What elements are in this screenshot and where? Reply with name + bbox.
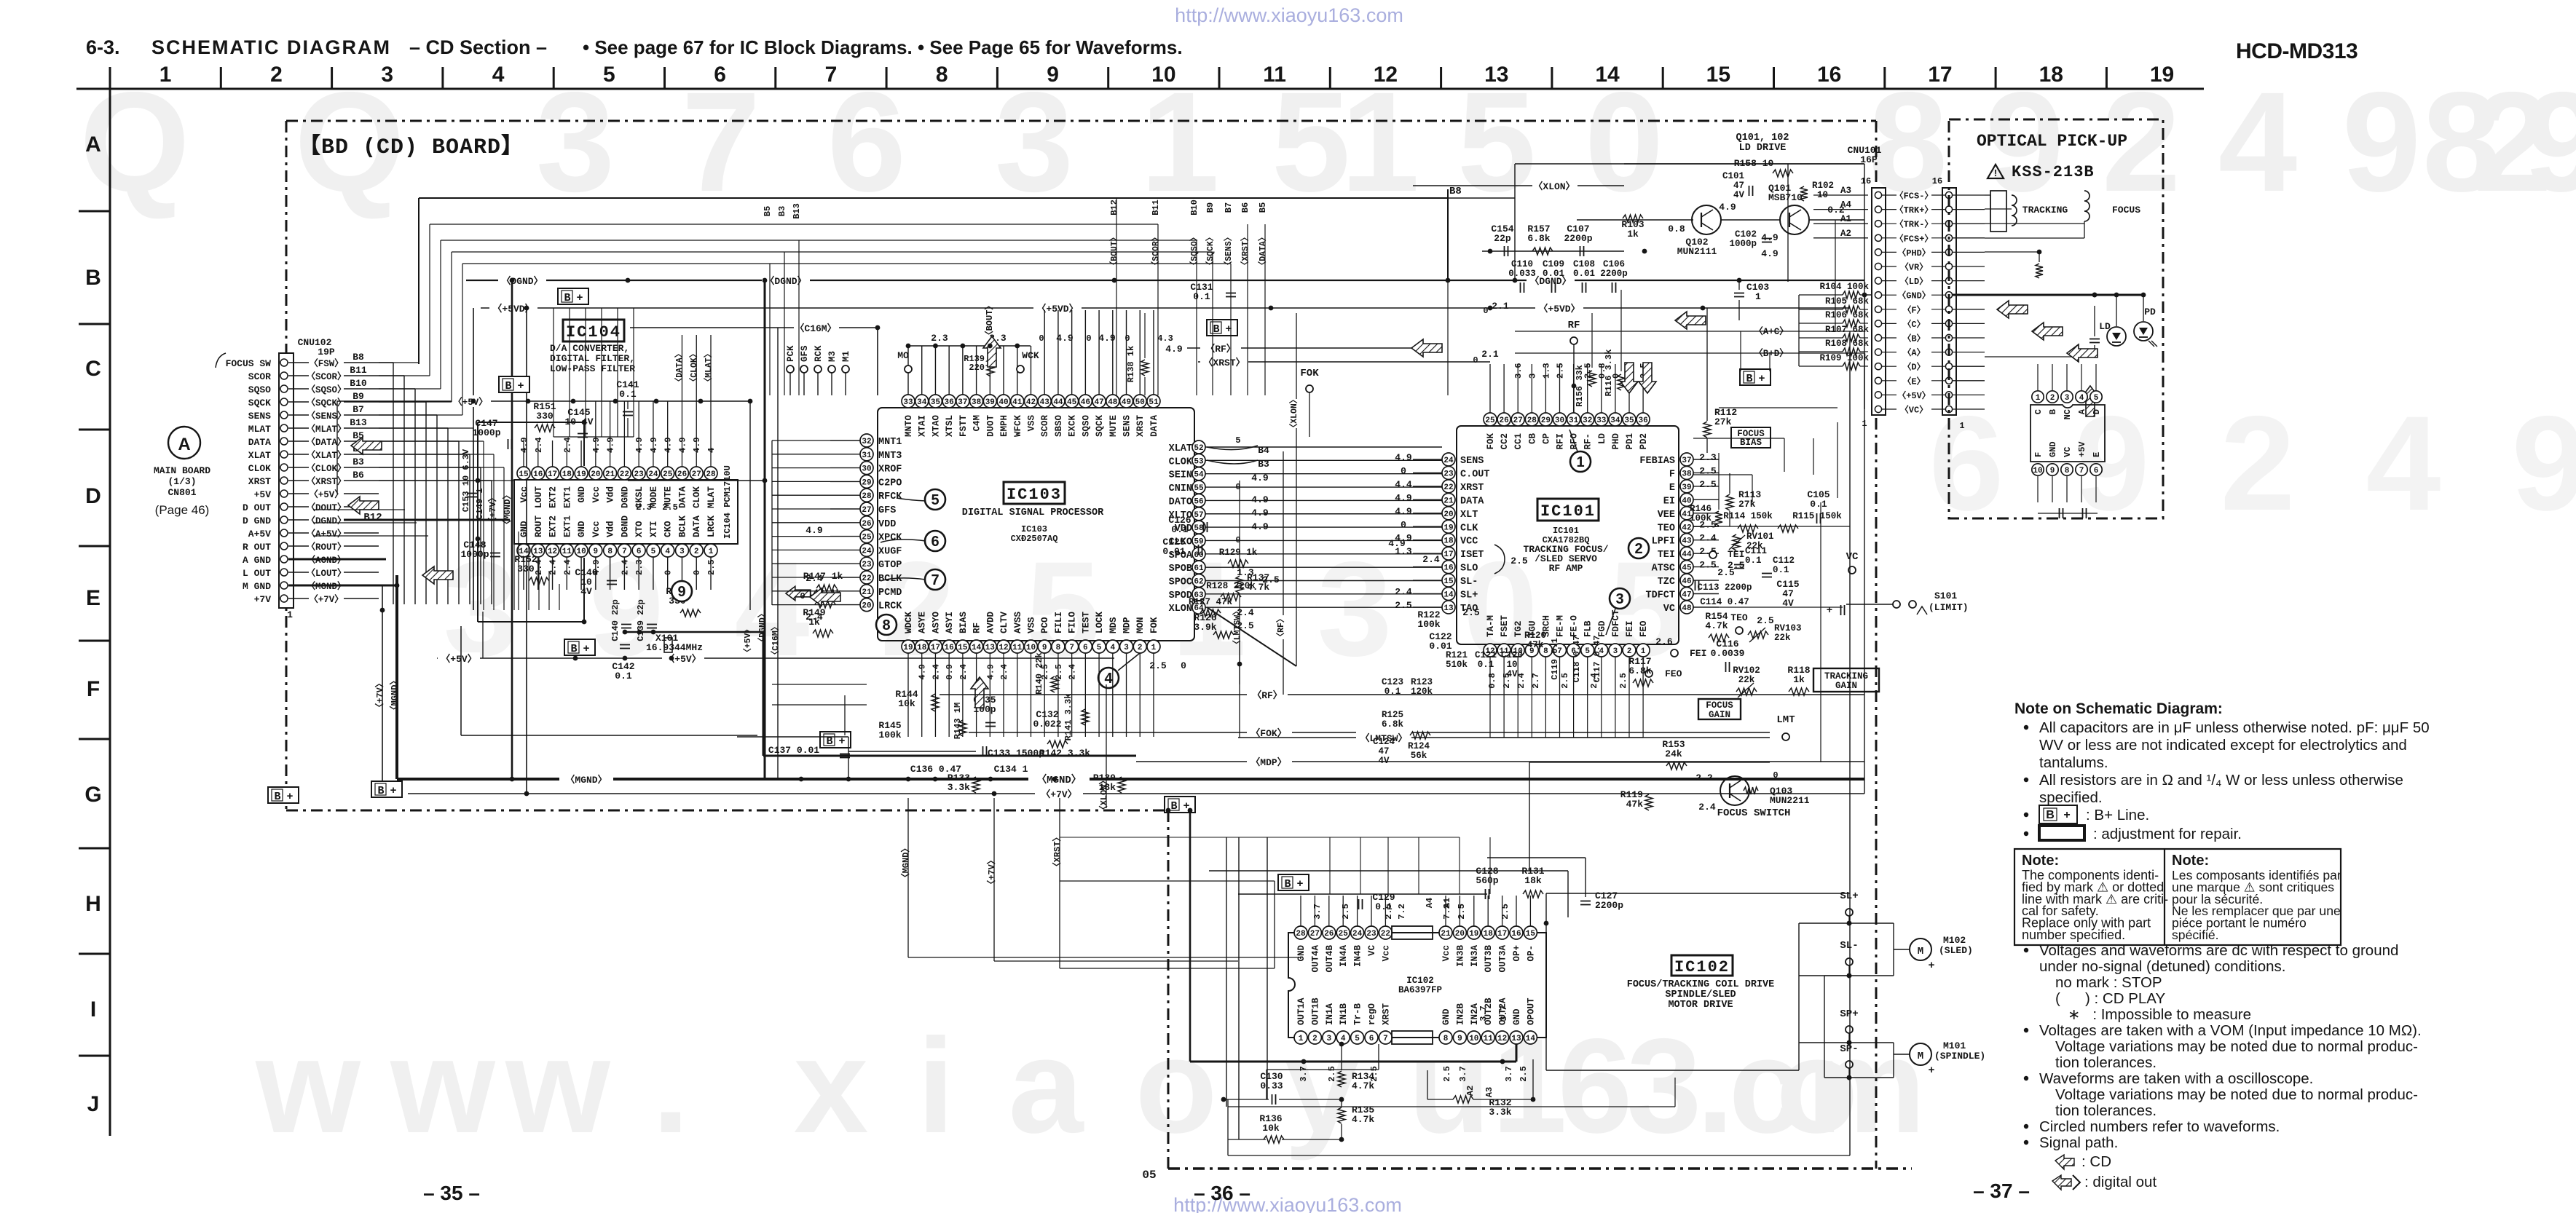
svg-text:Voltage variations may be note: Voltage variations may be noted due to n…	[2055, 1038, 2418, 1055]
signal tag LMTSW	[1238, 737, 1770, 738]
svg-text:XROF: XROF	[878, 465, 902, 475]
svg-text:7: 7	[825, 63, 838, 87]
grid column ticks and numbers	[109, 67, 111, 89]
svg-text:CLTV: CLTV	[999, 611, 1009, 633]
waveform circle 4	[1098, 668, 1119, 688]
svg-text:Vdd: Vdd	[606, 486, 616, 503]
hatched arrows down LD PHD	[1620, 363, 1638, 393]
svg-text:VEE: VEE	[1658, 510, 1675, 521]
svg-text:6.8k: 6.8k	[1628, 665, 1651, 676]
svg-text:1k: 1k	[1793, 674, 1805, 685]
svg-text:C102: C102	[1735, 229, 1757, 240]
svg-text:tion tolerances.: tion tolerances.	[2055, 1102, 2156, 1119]
svg-text:4: 4	[706, 448, 717, 453]
svg-text:29: 29	[1541, 416, 1551, 425]
svg-text:CC1: CC1	[1513, 433, 1524, 450]
svg-text:5: 5	[1097, 644, 1102, 652]
svg-text:3.9k: 3.9k	[1194, 622, 1216, 633]
svg-text:2200p: 2200p	[1600, 269, 1628, 279]
svg-text:4V: 4V	[580, 586, 592, 597]
svg-text:PD1: PD1	[1625, 433, 1635, 450]
svg-text:Q101, 102: Q101, 102	[1736, 133, 1789, 143]
note bullet list capacitors resistors	[2024, 725, 2028, 730]
svg-text:PD2: PD2	[1639, 433, 1649, 450]
svg-text:〈BOUT〉: 〈BOUT〉	[1108, 233, 1119, 270]
svg-text:2.5: 2.5	[1728, 560, 1745, 571]
svg-text:20: 20	[591, 470, 600, 479]
wire bus +5VD top	[481, 307, 1850, 309]
svg-text:2: 2	[1138, 644, 1143, 652]
svg-text:2.5: 2.5	[1502, 673, 1512, 689]
svg-text:1: 1	[2036, 394, 2041, 403]
svg-text:B3: B3	[1258, 459, 1269, 470]
wire +7V riser from connector	[382, 586, 383, 794]
svg-text:6: 6	[2094, 467, 2099, 475]
IC103 chip body	[878, 408, 1194, 641]
svg-text:27k: 27k	[1714, 416, 1732, 427]
svg-text:3: 3	[2065, 394, 2070, 403]
svg-text:1.3: 1.3	[1541, 363, 1551, 379]
svg-text:IC103: IC103	[1007, 486, 1062, 504]
svg-text:B7: B7	[1224, 202, 1234, 213]
svg-text:spécifié.: spécifié.	[2172, 928, 2219, 942]
note B+ line symbol	[2024, 813, 2028, 817]
waveform circle 5	[925, 489, 945, 510]
svg-text:11: 11	[1263, 63, 1286, 87]
svg-text:FEI: FEI	[1690, 648, 1706, 659]
svg-text:〈MLAT〉: 〈MLAT〉	[703, 349, 714, 387]
svg-text:WDCK: WDCK	[904, 611, 914, 633]
svg-text:VC: VC	[1367, 945, 1377, 957]
svg-text:7.2: 7.2	[1397, 904, 1407, 920]
svg-text:2.5: 2.5	[1519, 1066, 1529, 1082]
wires transistor cluster	[1624, 163, 1864, 165]
svg-text:FE-O: FE-O	[1569, 615, 1580, 637]
IC101 SLO brace 2.5	[1494, 545, 1505, 574]
svg-text:2.5: 2.5	[706, 559, 717, 575]
svg-text:+: +	[390, 785, 396, 797]
svg-text:2: 2	[270, 63, 283, 87]
svg-text:2200p: 2200p	[1564, 233, 1592, 244]
svg-text:M101: M101	[1943, 1040, 1966, 1051]
warning triangle	[1988, 165, 2004, 178]
svg-text:16: 16	[945, 644, 954, 652]
svg-text:2: 2	[2050, 394, 2055, 403]
svg-text:VC: VC	[1663, 604, 1675, 615]
svg-text:TEST: TEST	[1081, 611, 1091, 633]
svg-text:C134 1: C134 1	[994, 764, 1028, 775]
svg-text:OUT4A: OUT4A	[1310, 945, 1320, 973]
svg-text:〈DOUT〉: 〈DOUT〉	[306, 502, 346, 513]
svg-text:!: !	[1994, 167, 1997, 178]
svg-text:MNT1: MNT1	[878, 437, 902, 448]
svg-text:C137 0.01: C137 0.01	[768, 745, 819, 756]
svg-text:GND: GND	[1441, 1008, 1452, 1025]
svg-text:DGND: DGND	[620, 515, 630, 537]
svg-text:2.1: 2.1	[1492, 301, 1509, 312]
svg-text:56: 56	[1194, 497, 1203, 506]
wire MGND riser from connector	[395, 575, 398, 779]
svg-text:• See page 67 for IC Block Dia: • See page 67 for IC Block Diagrams. • S…	[583, 36, 1183, 58]
wire horizontal collector below IC101	[1490, 737, 1643, 738]
svg-text:R102: R102	[1812, 181, 1834, 191]
svg-text:Note:: Note:	[2172, 853, 2209, 869]
svg-text:D: D	[85, 484, 101, 508]
svg-text:38: 38	[972, 398, 982, 407]
svg-text:w: w	[390, 1011, 496, 1161]
svg-text:〈+7V〉: 〈+7V〉	[487, 493, 498, 526]
svg-text:G: G	[84, 783, 101, 807]
svg-text:〈XLAT〉: 〈XLAT〉	[306, 449, 346, 461]
hatched arrow left near CNJ101	[1675, 312, 1706, 329]
svg-text:+: +	[2063, 809, 2070, 821]
svg-text:XTI: XTI	[649, 521, 659, 537]
svg-text:PD: PD	[2144, 307, 2156, 317]
svg-text:0.1: 0.1	[1773, 565, 1789, 575]
svg-text:+: +	[1827, 605, 1832, 617]
svg-text:D OUT: D OUT	[243, 502, 271, 513]
svg-text:OUT3A: OUT3A	[1498, 945, 1508, 973]
svg-text:〈D〉: 〈D〉	[1902, 361, 1925, 373]
svg-text:IC102: IC102	[1674, 958, 1730, 976]
svg-text:120k: 120k	[1411, 687, 1433, 697]
svg-text:EXT1: EXT1	[562, 486, 572, 508]
svg-text:10k: 10k	[898, 698, 915, 709]
svg-text:22: 22	[862, 574, 871, 583]
svg-text:SPINDLE/SLED: SPINDLE/SLED	[1665, 989, 1736, 1000]
svg-text:AVSS: AVSS	[1013, 611, 1023, 633]
svg-text:〈MLAT〉: 〈MLAT〉	[306, 423, 346, 435]
IC103 right pin column 52-64	[1192, 440, 1205, 454]
svg-text:(SPINDLE): (SPINDLE)	[1934, 1051, 1985, 1062]
svg-text:2.4: 2.4	[620, 559, 630, 575]
svg-text:0: 0	[692, 570, 702, 575]
wire horizontals row D left	[313, 509, 405, 510]
wire B8 drop right	[1447, 198, 1449, 280]
wires CNJ101 verticals feed	[1798, 295, 1800, 366]
svg-text:〈FCS-〉: 〈FCS-〉	[1895, 190, 1934, 202]
svg-text:4.9: 4.9	[1165, 344, 1183, 355]
svg-text:33: 33	[903, 398, 913, 407]
note bullet list voltages waveforms	[2024, 948, 2028, 952]
thick wire G-row to IC102	[1190, 1061, 1516, 1063]
svg-text:2.5: 2.5	[1757, 615, 1774, 626]
svg-text:4.7k: 4.7k	[1352, 1114, 1374, 1125]
svg-text:19: 19	[903, 644, 913, 652]
IC101 right pin column 37-48	[1680, 453, 1693, 466]
svg-text:4.9: 4.9	[1251, 494, 1269, 505]
svg-text:9: 9	[594, 548, 599, 556]
svg-text:10: 10	[576, 548, 586, 556]
svg-text:58: 58	[1194, 524, 1204, 533]
svg-text:47k: 47k	[1527, 640, 1544, 650]
svg-text:2.4: 2.4	[1395, 587, 1412, 598]
wires from CNJ102 into board	[379, 362, 393, 363]
svg-text:Voltages and waveforms are dc: Voltages and waveforms are dc with respe…	[2039, 942, 2398, 959]
svg-text:35: 35	[931, 398, 941, 407]
svg-text:47: 47	[1094, 398, 1103, 407]
svg-text:16.9344MHz: 16.9344MHz	[646, 642, 703, 653]
svg-text:4.9: 4.9	[1098, 333, 1116, 344]
svg-text:15: 15	[519, 470, 529, 479]
svg-text:XTO: XTO	[634, 521, 645, 537]
svg-text:0: 0	[1086, 333, 1091, 344]
wire loop around C146	[477, 539, 478, 622]
svg-text:49: 49	[1122, 398, 1131, 407]
svg-text:560p: 560p	[1476, 875, 1498, 886]
svg-text:47: 47	[1378, 746, 1389, 756]
IC102 chip body BA6397FP	[1288, 933, 1546, 1038]
svg-text:DATA: DATA	[692, 515, 702, 537]
svg-text:2.6: 2.6	[1655, 636, 1673, 647]
svg-text:– CD Section –: – CD Section –	[409, 36, 547, 58]
svg-text:0.1: 0.1	[1193, 291, 1210, 302]
B+ box right mid	[1740, 369, 1770, 385]
svg-text:17: 17	[1928, 63, 1952, 87]
svg-text:2.4: 2.4	[999, 664, 1009, 680]
svg-text:8: 8	[1443, 1035, 1449, 1043]
IC102 top pin row 21-15	[1439, 926, 1452, 939]
wire loop right of IC102	[1545, 893, 1547, 1070]
svg-text:25: 25	[862, 534, 872, 542]
svg-text:IN3A: IN3A	[1470, 945, 1480, 968]
wire DGND to CNJ101 GND row	[1864, 294, 1872, 296]
svg-text:〈F〉: 〈F〉	[1902, 304, 1925, 315]
svg-text:8: 8	[1056, 644, 1061, 652]
svg-text:SCHEMATIC DIAGRAM: SCHEMATIC DIAGRAM	[151, 36, 391, 58]
svg-text:B3: B3	[352, 457, 364, 467]
svg-text:LD: LD	[2099, 321, 2111, 332]
svg-text:5: 5	[651, 548, 656, 556]
svg-text:40: 40	[999, 398, 1008, 407]
svg-text:M GND: M GND	[243, 581, 271, 592]
svg-text:〈VC〉: 〈VC〉	[1900, 404, 1928, 416]
svg-text:C4M: C4M	[972, 415, 982, 432]
signal tags A+C B+D	[1751, 325, 1793, 336]
svg-text:E: E	[2092, 452, 2102, 457]
wire rows above IC102	[1209, 870, 1568, 872]
svg-text:54: 54	[1194, 471, 1204, 480]
B+ box left of IC104	[499, 376, 529, 392]
signal tag RF mid	[940, 694, 1864, 695]
wire verticals below IC101	[1489, 695, 1491, 738]
svg-text:16: 16	[1443, 564, 1453, 573]
svg-text:14: 14	[1526, 1035, 1536, 1043]
IC103 left wires to IC104	[772, 440, 830, 441]
svg-text:〈SQCK〉: 〈SQCK〉	[1205, 233, 1216, 270]
monitor pins PCK GFS RCK M3 M1	[787, 366, 794, 373]
wire bus MGND bottom	[397, 778, 1864, 781]
svg-text:20: 20	[1455, 930, 1465, 939]
svg-text:12: 12	[548, 548, 557, 556]
svg-text:330: 330	[536, 411, 554, 422]
svg-text:under no-signal (detuned) cond: under no-signal (detuned) conditions.	[2039, 958, 2285, 975]
svg-text:4.9: 4.9	[649, 437, 659, 453]
svg-text:4V: 4V	[1782, 598, 1794, 609]
svg-text:OUT4B: OUT4B	[1325, 945, 1335, 973]
svg-text:(SLED): (SLED)	[1939, 945, 1973, 956]
svg-text:2.5: 2.5	[1327, 1066, 1337, 1082]
svg-text:4: 4	[1110, 644, 1115, 652]
IC103 bottom pin row 19-1	[902, 640, 915, 653]
svg-text:4: 4	[665, 548, 670, 556]
wire +5V row D line	[470, 400, 750, 402]
svg-text:21: 21	[1443, 497, 1454, 505]
svg-text:1: 1	[709, 548, 714, 556]
svg-text:RF: RF	[1568, 320, 1580, 331]
svg-text:R125: R125	[1382, 710, 1403, 720]
svg-text:DIGITAL FILTER,: DIGITAL FILTER,	[550, 353, 635, 364]
svg-text:F: F	[87, 677, 100, 701]
IC101 top stub wires	[1489, 364, 1491, 413]
svg-text:B11: B11	[1151, 199, 1161, 216]
svg-text:22k: 22k	[1774, 633, 1791, 643]
svg-text:4.9: 4.9	[1761, 248, 1779, 259]
svg-text:IN1A: IN1A	[1325, 1003, 1335, 1025]
svg-text:23: 23	[862, 561, 872, 569]
svg-text:〈TRK-〉: 〈TRK-〉	[1895, 218, 1934, 230]
svg-text:62: 62	[1194, 578, 1203, 587]
svg-text:32: 32	[1583, 416, 1592, 425]
svg-text:B9: B9	[352, 391, 364, 402]
svg-text:〈SCOR〉: 〈SCOR〉	[1150, 233, 1161, 270]
svg-text:14: 14	[1595, 63, 1620, 87]
svg-text:D: D	[2092, 409, 2102, 414]
svg-text:PCMD: PCMD	[878, 588, 902, 598]
svg-text:〈DGND〉: 〈DGND〉	[501, 275, 543, 287]
svg-text:3.7: 3.7	[1299, 1066, 1309, 1082]
svg-text:4.9: 4.9	[1395, 492, 1412, 503]
svg-text:19: 19	[1443, 523, 1453, 532]
svg-text:FOK: FOK	[1300, 368, 1319, 379]
svg-text:XTSL: XTSL	[945, 415, 955, 437]
svg-text:SL-: SL-	[1460, 577, 1478, 588]
waveform circle 8	[876, 615, 897, 635]
svg-text:15: 15	[1443, 577, 1454, 586]
svg-text:B: B	[570, 643, 577, 655]
svg-text:〈RF〉: 〈RF〉	[1275, 615, 1286, 641]
svg-text:19P: 19P	[318, 347, 335, 357]
svg-text:1000p: 1000p	[1729, 239, 1757, 249]
svg-text:4: 4	[2366, 389, 2441, 539]
svg-text:DATA: DATA	[248, 437, 271, 448]
svg-text:TRACKING: TRACKING	[2022, 205, 2068, 216]
svg-text:F: F	[1669, 469, 1675, 480]
IC103 left pin column 32-20	[860, 434, 873, 447]
svg-text:MSB710: MSB710	[1768, 192, 1803, 203]
svg-text:SEIN: SEIN	[1169, 470, 1192, 481]
svg-text:55: 55	[1194, 484, 1204, 493]
svg-text:XRST: XRST	[248, 476, 271, 487]
svg-text:MUN2111: MUN2111	[1677, 246, 1717, 257]
svg-text:〈C〉: 〈C〉	[1902, 318, 1925, 330]
svg-text:R105 68k: R105 68k	[1825, 296, 1870, 307]
svg-text:1: 1	[1299, 1035, 1304, 1043]
svg-text:〈CLOK〉: 〈CLOK〉	[688, 349, 699, 387]
svg-text:GND: GND	[577, 486, 587, 503]
svg-text:〈DGND〉: 〈DGND〉	[757, 609, 768, 647]
svg-text:VC: VC	[1846, 551, 1859, 563]
IC101 label box	[1537, 499, 1599, 521]
svg-text:18: 18	[917, 644, 927, 652]
svg-text:IN3B: IN3B	[1455, 945, 1465, 968]
svg-text:6.8k: 6.8k	[1527, 233, 1550, 244]
svg-text:Note:: Note:	[2022, 853, 2059, 869]
svg-text:〈MGND〉: 〈MGND〉	[565, 774, 607, 786]
svg-text:TEO: TEO	[1730, 612, 1748, 623]
svg-text:C108: C108	[1573, 259, 1595, 269]
svg-text:〈SQSO〉: 〈SQSO〉	[1189, 233, 1200, 270]
svg-text:50: 50	[1135, 398, 1145, 407]
svg-text:5: 5	[1235, 435, 1240, 446]
svg-text:IC104: IC104	[566, 323, 621, 341]
svg-text:21: 21	[862, 588, 872, 597]
svg-text:R108 68k: R108 68k	[1825, 339, 1870, 349]
IC103 top pin row 33-51	[902, 395, 915, 408]
svg-text:VSS: VSS	[1026, 415, 1036, 432]
svg-text:R123: R123	[1411, 677, 1433, 687]
LD laser diode	[2107, 327, 2126, 346]
svg-text:0: 0	[1124, 333, 1130, 344]
svg-text:XTAI: XTAI	[918, 415, 928, 437]
svg-text:8: 8	[936, 63, 948, 87]
connector CNJ101 left strip	[1872, 188, 1886, 415]
wire B5 B3 B13 column drops	[473, 251, 799, 253]
svg-text:13: 13	[1484, 63, 1508, 87]
svg-text:C113 2200p: C113 2200p	[1697, 582, 1752, 593]
focus coil	[2084, 191, 2089, 221]
svg-text:SQCK: SQCK	[1095, 415, 1105, 438]
svg-text:〈XRST〉: 〈XRST〉	[1203, 357, 1245, 368]
hatched arrows inside pickup	[1997, 301, 2028, 318]
svg-text:14: 14	[1443, 591, 1454, 600]
svg-text:3: 3	[1613, 647, 1618, 656]
svg-text:SPOB: SPOB	[1169, 564, 1192, 574]
svg-text:2.2: 2.2	[1695, 773, 1713, 783]
svg-text:LRCK: LRCK	[878, 601, 902, 612]
svg-text:C140 22p: C140 22p	[610, 599, 621, 641]
svg-text:12: 12	[1497, 1035, 1507, 1043]
svg-text:3.7: 3.7	[1458, 1066, 1468, 1082]
svg-text:CP: CP	[1541, 433, 1551, 444]
wire long verticals right edge	[1820, 502, 1821, 762]
svg-text:B: B	[274, 791, 280, 803]
TEI terminal	[1709, 551, 1717, 558]
svg-text:Signal path.: Signal path.	[2039, 1134, 2118, 1151]
svg-text:R106 68k: R106 68k	[1825, 310, 1870, 320]
svg-text:RFI: RFI	[1556, 433, 1566, 450]
svg-text:CXÐ2507AQ: CXÐ2507AQ	[1011, 534, 1058, 544]
wire collector lines below IC103	[737, 736, 848, 738]
wire loop around C145	[478, 422, 584, 423]
svg-text:0.1: 0.1	[1375, 901, 1393, 912]
svg-text:〈SQSO〉: 〈SQSO〉	[306, 384, 346, 395]
svg-text:26: 26	[677, 470, 687, 479]
svg-text:4.9: 4.9	[606, 437, 616, 453]
svg-text:0.8: 0.8	[1668, 224, 1685, 234]
svg-text:2.4: 2.4	[562, 559, 572, 575]
svg-text:330: 330	[517, 564, 535, 574]
svg-text:〈SQCK〉: 〈SQCK〉	[306, 397, 346, 408]
signal tag MDP mid	[1136, 761, 1864, 762]
waveform circle 3	[1610, 588, 1630, 609]
svg-text:C: C	[85, 357, 101, 381]
svg-text:CN801: CN801	[168, 487, 196, 498]
svg-text:4.9: 4.9	[519, 437, 529, 453]
svg-text:XUGF: XUGF	[878, 546, 902, 557]
junction dots on buses	[510, 278, 515, 283]
svg-text:〈BOUT〉: 〈BOUT〉	[983, 301, 995, 340]
